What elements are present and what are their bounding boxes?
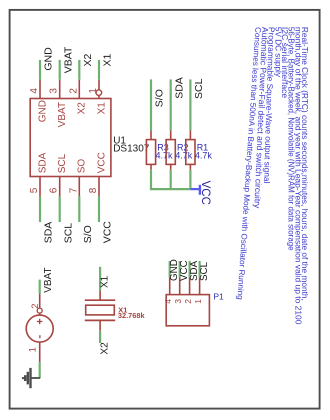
svg-text:3: 3 xyxy=(173,299,183,304)
svg-text:GND: GND xyxy=(43,47,55,71)
P1 pin 4 xyxy=(169,278,171,295)
svg-text:SCL: SCL xyxy=(193,78,205,99)
wire net S/O xyxy=(150,79,152,130)
svg-text:6: 6 xyxy=(49,187,60,193)
svg-text:S/O: S/O xyxy=(154,89,166,107)
pin 1 inversion circle xyxy=(96,90,102,96)
svg-text:X2: X2 xyxy=(77,102,88,115)
resistor R2 pin 2 xyxy=(170,164,172,169)
resistor R2 pin 1 xyxy=(170,131,172,140)
svg-text:4.7k: 4.7k xyxy=(156,151,174,161)
connector P1 body xyxy=(166,295,209,326)
svg-text:VCC: VCC xyxy=(96,152,107,173)
svg-text:VBAT: VBAT xyxy=(43,267,54,292)
svg-text:X2: X2 xyxy=(82,54,94,67)
P1 pin 3 xyxy=(179,278,181,295)
ground symbol xyxy=(30,377,41,379)
battery pin 2 circle xyxy=(37,308,42,313)
wire net VCC xyxy=(98,196,100,222)
wire net X1 xyxy=(99,267,101,291)
wire to ground xyxy=(39,362,41,378)
svg-text:8: 8 xyxy=(88,187,99,193)
svg-text:32.768k: 32.768k xyxy=(118,311,146,320)
wire net SCL xyxy=(189,79,191,130)
wire net VCC xyxy=(179,261,181,278)
resistor R2 body xyxy=(166,140,175,165)
wire net X2 xyxy=(99,331,101,343)
wire net SCL xyxy=(59,196,61,222)
P1 pin 1 xyxy=(199,278,201,295)
U1 pin 8 (VCC) xyxy=(98,177,100,197)
svg-text:4: 4 xyxy=(163,299,173,304)
crystal body xyxy=(86,305,115,315)
wire to VCC rail xyxy=(189,170,191,189)
crystal X1 pin 2 xyxy=(99,321,101,331)
svg-text:SCL: SCL xyxy=(57,153,68,173)
svg-text:2: 2 xyxy=(30,304,41,309)
battery body circle xyxy=(26,315,53,342)
svg-text:5: 5 xyxy=(29,187,40,193)
resistor R1 pin 2 xyxy=(189,164,191,169)
svg-text:2: 2 xyxy=(183,299,193,304)
U1 pin 5 (SDA) xyxy=(39,177,41,197)
svg-text:SDA: SDA xyxy=(173,77,185,99)
svg-text:SDA: SDA xyxy=(43,222,55,244)
svg-text:1: 1 xyxy=(27,347,38,352)
svg-text:SCL: SCL xyxy=(199,261,210,281)
wire net SDA xyxy=(170,79,172,130)
crystal plate top xyxy=(85,299,115,301)
resistor R1 body xyxy=(186,140,195,165)
wire net GND xyxy=(39,60,41,80)
wire net X1 xyxy=(98,60,100,80)
supply symbol VCC stub xyxy=(190,188,201,190)
wire to VCC rail xyxy=(170,170,172,189)
svg-text:X1: X1 xyxy=(96,102,107,115)
wire net SDA xyxy=(39,196,41,222)
battery minus mark xyxy=(39,335,41,338)
svg-text:VCC: VCC xyxy=(102,221,114,244)
wire VCC rail xyxy=(150,188,191,190)
battery plus mark xyxy=(37,321,43,323)
svg-text:S/O: S/O xyxy=(82,225,94,243)
wire net VBAT xyxy=(59,60,61,80)
wire net S/O xyxy=(78,196,80,222)
U1 pin 2 (X2) xyxy=(78,80,80,99)
U1 pin 4 (GND) xyxy=(39,80,41,99)
resistor R1 pin 1 xyxy=(189,131,191,140)
svg-text:4.7k: 4.7k xyxy=(175,151,193,161)
svg-text:X1: X1 xyxy=(102,54,114,67)
wire net VBAT xyxy=(39,280,41,294)
P1 pin 2 xyxy=(189,278,191,295)
U1 pin 7 (SO) xyxy=(78,177,80,197)
wire net SDA xyxy=(189,261,191,278)
crystal plate bottom xyxy=(85,319,115,321)
svg-text:P1: P1 xyxy=(213,292,224,302)
crystal X1 pin 1 xyxy=(99,290,101,300)
op-amp U1 DS1307 body xyxy=(30,99,111,177)
battery pin 1 xyxy=(39,342,41,362)
svg-text:3: 3 xyxy=(49,88,60,94)
resistor R3 pin 1 xyxy=(150,131,152,140)
battery pin 2 xyxy=(39,294,41,316)
wire net SCL xyxy=(199,261,201,278)
svg-text:GND: GND xyxy=(37,100,48,122)
svg-text:4: 4 xyxy=(29,88,40,94)
svg-text:SCL: SCL xyxy=(62,223,74,244)
svg-text:SDA: SDA xyxy=(37,152,48,173)
resistor R3 pin 2 xyxy=(150,164,152,169)
svg-text:DS1307: DS1307 xyxy=(113,144,150,155)
svg-text:X1: X1 xyxy=(100,275,111,288)
U1 pin 3 (VBAT) xyxy=(59,80,61,99)
svg-text:SO: SO xyxy=(77,159,88,174)
resistor R3 body xyxy=(146,140,155,165)
wire to VCC rail xyxy=(150,170,152,189)
svg-text:VCC: VCC xyxy=(199,181,211,205)
svg-text:1: 1 xyxy=(193,299,203,304)
svg-text:4.7k: 4.7k xyxy=(195,151,213,161)
supply symbol VCC bar xyxy=(199,185,201,195)
U1 pin 1 (X1) xyxy=(98,80,100,99)
svg-text:X2: X2 xyxy=(100,342,111,355)
wire net X2 xyxy=(78,60,80,80)
wire net GND xyxy=(169,261,171,278)
svg-text:VBAT: VBAT xyxy=(62,46,74,73)
U1 pin 6 (SCL) xyxy=(59,177,61,197)
svg-text:VBAT: VBAT xyxy=(57,102,68,127)
svg-text:2: 2 xyxy=(68,88,79,94)
svg-text:7: 7 xyxy=(68,187,79,193)
